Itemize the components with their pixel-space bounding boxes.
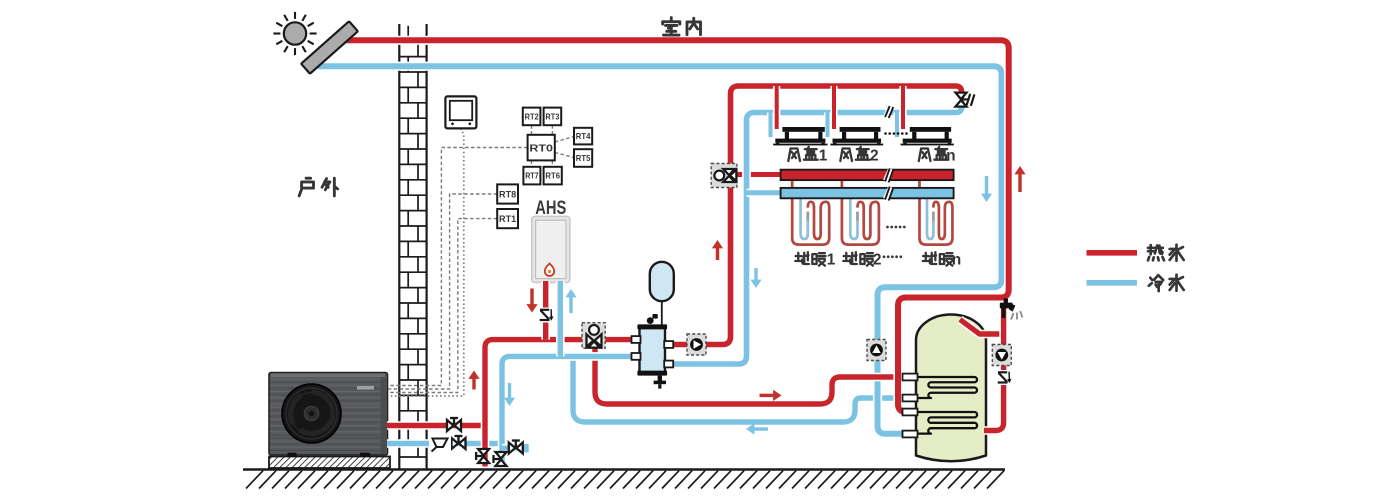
flow arrow up (heat pump supply)	[468, 371, 479, 379]
heat pump fan	[282, 384, 341, 443]
sensor RT5	[574, 149, 592, 167]
pipe: cold branch from riser to floor-heating return manifold	[747, 189, 783, 197]
pipe: hot supply to tank upper coil (bottom red loop)	[595, 344, 908, 404]
label outdoor (hu wai)	[299, 178, 313, 196]
flow arrow down (heat pump return)	[504, 398, 515, 406]
flow arrow down (cold riser)	[750, 280, 761, 288]
legend hot water label	[1148, 245, 1164, 260]
label fan coil n	[919, 148, 931, 161]
svg-text:2: 2	[870, 147, 879, 164]
solar collector panel	[301, 21, 358, 73]
ellipsis between floor loop labels	[883, 255, 886, 258]
label floor loop 1	[795, 252, 809, 264]
heat pump outdoor unit body	[269, 373, 388, 456]
svg-text:RT0: RT0	[529, 142, 553, 154]
svg-text:n: n	[946, 147, 955, 164]
tank lower heat-exchanger coil	[906, 412, 977, 434]
check valve on recirculation line	[997, 370, 1012, 385]
drain valve on cold line	[496, 452, 507, 459]
hot water tap	[1000, 303, 1013, 309]
label floor loop 2	[843, 252, 857, 264]
circulation pump (tank lower coil)	[867, 340, 886, 361]
sensor RT8	[497, 184, 518, 203]
hot water tank body	[916, 315, 986, 462]
flow arrow down (AHS out)	[526, 304, 537, 312]
label fan coil 1	[788, 148, 800, 161]
check valve under AHS	[539, 308, 554, 323]
valve on heat pump hot outlet	[447, 420, 454, 431]
flow arrow up (right loop hot)	[1014, 166, 1025, 174]
pipe: cold riser from fan-coil return header to separator	[664, 100, 962, 364]
svg-text:RT4: RT4	[576, 131, 591, 141]
floor heating loop 1 serpentine	[792, 181, 829, 245]
legend hot water line	[1087, 250, 1138, 256]
break symbol on fan-coil return pipe	[884, 105, 894, 117]
svg-text:RT6: RT6	[545, 171, 560, 181]
svg-text:RT8: RT8	[499, 189, 516, 200]
expansion vessel	[650, 262, 674, 301]
drain funnel on cold inlet	[429, 435, 451, 454]
label indoor (shi nei)	[663, 18, 680, 35]
svg-text:RT5: RT5	[576, 153, 591, 163]
label fan coil 2	[840, 148, 852, 161]
svg-text:RT3: RT3	[545, 111, 559, 121]
legend cold water label	[1149, 275, 1163, 291]
auxiliary heat source AHS box	[532, 216, 570, 282]
flow arrow left (tank coil return)	[746, 423, 754, 434]
pipe: blue main from separator down to heat pump inlet	[502, 356, 636, 466]
pipe: cold return from tank upper coil (bottom blue loop)	[573, 354, 908, 422]
break symbol on supply manifold	[883, 168, 894, 182]
pipe: domestic hot water line with recirculation down into tank	[984, 307, 1004, 431]
legend cold water line	[1087, 280, 1138, 286]
pipe: fan coil unit 2 connections	[824, 113, 831, 138]
flow arrow up (into AHS)	[565, 289, 576, 297]
control wiring (dashed sensor lines)	[531, 125, 533, 135]
fan coil unit n	[910, 127, 951, 132]
sun	[284, 22, 306, 44]
svg-text:RT7: RT7	[525, 171, 539, 181]
tank upper heat-exchanger coil	[906, 377, 977, 398]
ground with hatching	[243, 468, 1005, 470]
sensor RT2	[523, 108, 541, 126]
pipe: hot line from collector down to tank lower coil (red main top)	[345, 40, 1009, 412]
pipe: cold line from collector to tank lower coil (blue main top)	[318, 66, 1002, 434]
flow arrow up (hot riser)	[712, 240, 723, 248]
pipe: tank dome hot water outlet	[960, 320, 1004, 335]
heat pump feet	[288, 453, 297, 457]
break symbol on return manifold	[883, 186, 894, 200]
svg-text:RT2: RT2	[525, 111, 539, 121]
label floor loop n	[923, 252, 937, 264]
pipe: fan coil unit n connections	[893, 113, 900, 138]
sensor RT7	[523, 167, 540, 185]
svg-text:2: 2	[873, 252, 882, 269]
separator port stubs	[632, 336, 641, 343]
hydraulic separator drain	[658, 376, 662, 382]
flow arrow down (right loop cold)	[981, 194, 992, 202]
svg-text:RT1: RT1	[499, 214, 517, 225]
svg-text:1: 1	[819, 147, 828, 164]
sensor RT1	[497, 209, 518, 228]
svg-text:1: 1	[827, 252, 836, 269]
floor heating loop n serpentine	[920, 181, 953, 245]
sensor RT6	[544, 167, 562, 185]
ellipsis between floor loops	[886, 226, 889, 229]
make-up water valve	[509, 443, 516, 454]
controller RT0	[528, 135, 555, 161]
pipe: heat pump cold inlet line	[387, 439, 504, 448]
pipe: hot branch from mixing valve to floor-heating supply manifold	[737, 170, 782, 178]
hydraulic separator air vent	[647, 317, 654, 324]
pipe: heat pump hot outlet to separator (red main)	[387, 421, 488, 430]
three-way mixing valve at floor manifold	[711, 164, 737, 188]
wall controller / monitor	[445, 96, 476, 128]
fan coil unit 1	[782, 127, 824, 132]
svg-text:n: n	[952, 252, 961, 269]
hydraulic separator body	[640, 327, 666, 373]
tank port stubs	[903, 374, 918, 381]
floor heating supply manifold (red bar)	[781, 170, 954, 180]
wall (brick column separating outdoor/indoor)	[398, 24, 400, 469]
pipe: AHS hot outlet down to red main	[541, 281, 550, 340]
ellipsis dots between fan coil 2 and n	[884, 132, 887, 135]
flow arrow right (to tank coil)	[773, 390, 781, 401]
valve on heat pump cold inlet	[452, 438, 459, 449]
pipe: hot riser from separator to fan-coil supply header	[664, 86, 962, 345]
pressure bypass valve on fan-coil headers	[956, 93, 967, 100]
pipe: fan coil unit 1 connections	[767, 113, 774, 138]
floor heating loop 2 serpentine	[842, 181, 879, 245]
circulation pump (separator to headers)	[687, 334, 706, 355]
drain valve on hot line	[478, 449, 489, 456]
pipe: blue branch up into AHS	[556, 281, 565, 356]
expansion vessel connecting line	[661, 300, 663, 326]
three-way mixing valve at separator	[582, 323, 605, 349]
domestic hot water recirculation pump	[992, 345, 1011, 366]
sensor RT4	[574, 128, 592, 145]
floor heating return manifold (blue bar)	[781, 188, 954, 198]
fan coil unit 2	[840, 127, 881, 132]
sensor RT3	[544, 108, 562, 126]
